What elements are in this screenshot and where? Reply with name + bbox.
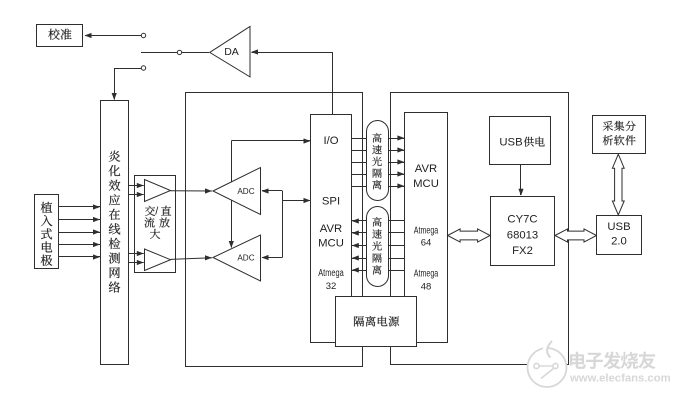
svg-text:ADC: ADC (237, 253, 254, 262)
box 炎化效应在线检测网络 (online detection network) (101, 101, 129, 365)
box 交/直流放大 (AC/DC amplifier) (135, 176, 176, 273)
svg-text:68013: 68013 (507, 230, 538, 242)
box USB 2.0 (597, 216, 642, 255)
box USB供电 (USB power) (490, 117, 551, 165)
wire switch pole to DA input (141, 50, 209, 54)
box 校准 (calibration) (37, 25, 83, 47)
amplifier A1 (top channel) (145, 180, 171, 202)
svg-text:Atmega: Atmega (414, 269, 439, 280)
svg-text:USB: USB (607, 221, 630, 233)
wire A2 output to ADC2 (171, 255, 213, 260)
watermark elecfans logo (528, 341, 567, 387)
wires electrodes to detection network (5 arrows) (59, 204, 100, 259)
enclosure box right (USB digital section) (391, 93, 569, 365)
svg-text:USB: USB (499, 137, 522, 149)
isolator 高速光隔离 (top optocoupler) (367, 121, 389, 201)
svg-text:www.elecfans.com: www.elecfans.com (569, 373, 671, 385)
wire USB power to CY7C (518, 165, 523, 196)
wire I/O to DA input (251, 49, 333, 114)
svg-text:ADC: ADC (237, 187, 254, 196)
svg-text:MCU: MCU (413, 178, 439, 190)
svg-text:DA: DA (224, 46, 239, 58)
watermark text 电子发烧友 (570, 352, 656, 370)
adc ADC2 (bottom) (213, 235, 261, 281)
box 隔离电源 (isolated power supply) (336, 297, 417, 347)
bus arrow AVR MCU <-> CY7C (448, 229, 491, 242)
box MCU1 I/O SPI AVR MCU Atmega32 (311, 115, 352, 343)
svg-text:I/O: I/O (323, 135, 338, 147)
isolator 高速光隔离 (bottom optocoupler) (367, 207, 389, 287)
box CY7C68013 FX2 (USB controller) (491, 197, 555, 266)
box 植入式电极 (implanted electrodes) (35, 195, 59, 269)
wire SPI bus to ADCs (262, 188, 311, 260)
bus arrow 采集分析软件 <-> USB2.0 (612, 154, 624, 215)
bus arrow CY7C <-> USB2.0 (555, 229, 597, 242)
wires network to A2 (2 arrows) (128, 251, 144, 265)
wire ADC1 to I/O port (231, 138, 310, 182)
watermark text www.elecfans.com (569, 373, 671, 385)
wires network to A1 (2 arrows) (128, 183, 144, 197)
svg-text:SPI: SPI (322, 195, 340, 207)
wire switch contact B to detection network (112, 66, 146, 100)
svg-text:64: 64 (421, 238, 432, 249)
enclosure box left (isolated analog section) (186, 93, 363, 367)
svg-text:AVR: AVR (415, 163, 437, 175)
svg-text:CY7C: CY7C (507, 213, 537, 225)
arrowheads bus into AVR MCU (397, 135, 404, 188)
svg-text:MCU: MCU (318, 238, 344, 250)
svg-text:AVR: AVR (320, 223, 342, 235)
svg-text:FX2: FX2 (512, 245, 533, 257)
bus I/O to AVR MCU (5 lines) (351, 139, 404, 187)
amplifier DA (calibration DAC buffer) (210, 26, 250, 77)
amplifier A2 (bottom channel) (145, 249, 171, 271)
bus AVR MCU to SPI MCU (5 lines) (352, 221, 405, 271)
arrowheads bus into SPI MCU (352, 218, 359, 272)
svg-text:32: 32 (326, 281, 337, 292)
adc ADC1 (top) (213, 168, 261, 215)
svg-text:2.0: 2.0 (611, 236, 627, 248)
box 采集分析软件 (acquisition software) (593, 116, 646, 154)
wire A1 output to ADC1 (171, 188, 213, 193)
wire switch contact A to 校准 box (85, 33, 146, 38)
svg-text:48: 48 (421, 282, 432, 293)
wire ADC1 to ADC2 (sync) (229, 201, 234, 249)
box MCU2 AVR MCU Atmega64 Atmega48 (405, 113, 448, 343)
svg-text:Atmega: Atmega (414, 225, 439, 236)
svg-text:Atmega: Atmega (318, 268, 344, 279)
